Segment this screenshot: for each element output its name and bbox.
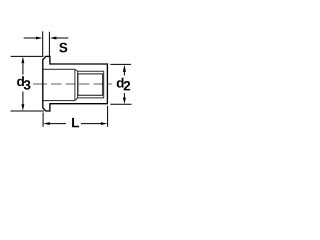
L arrow right xyxy=(101,122,108,125)
bore line upper xyxy=(43,68,75,70)
label S xyxy=(59,43,67,53)
label d2 letter d xyxy=(117,78,124,88)
d2 extension line top xyxy=(110,63,131,65)
d3 arrow down xyxy=(21,104,24,111)
L arrow left xyxy=(43,122,50,125)
chamfer top xyxy=(75,69,78,71)
d3 extension line bottom xyxy=(11,110,45,112)
bore line lower xyxy=(43,100,75,102)
S arrow left xyxy=(24,37,37,39)
thread box inner xyxy=(78,74,103,95)
part silhouette: flange + body xyxy=(43,56,108,111)
d2 arrow up xyxy=(123,65,126,72)
bore step xyxy=(74,69,76,100)
L extension line right xyxy=(107,106,109,127)
thread box outer xyxy=(78,71,104,98)
d3 dimension line xyxy=(22,62,24,107)
d2 dimension line xyxy=(123,70,125,100)
S extension line right xyxy=(48,32,50,57)
L dimension line xyxy=(49,123,101,125)
L extension line left xyxy=(42,112,44,126)
label L xyxy=(72,118,79,127)
d3 arrow up xyxy=(21,57,24,64)
label d2 subscript 2 xyxy=(124,81,131,90)
d2 extension line bottom xyxy=(110,103,131,105)
S arrow right xyxy=(56,37,69,39)
label d3 letter d xyxy=(17,76,24,86)
centerline xyxy=(33,83,112,85)
label d3 subscript 3 xyxy=(24,80,31,90)
d3 extension line top xyxy=(11,55,44,57)
S extension line left xyxy=(42,31,44,56)
chamfer bottom xyxy=(75,98,78,101)
d2 arrow down xyxy=(123,98,126,105)
